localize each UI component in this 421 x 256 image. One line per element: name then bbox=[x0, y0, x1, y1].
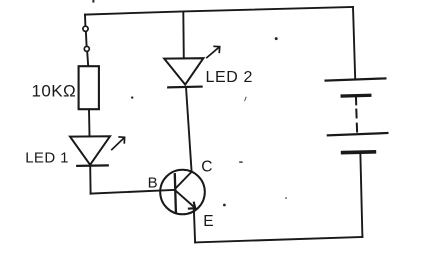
wire top rail to battery positive bbox=[353, 7, 355, 79]
speck dash right of transistor bbox=[239, 161, 242, 162]
svg-text:B: B bbox=[148, 175, 158, 192]
wire left vertical from top rail to switch contact bbox=[84, 15, 86, 27]
transistor emitter diagonal with arrow bbox=[176, 191, 195, 208]
wire top rail from left branch to battery bbox=[85, 7, 353, 15]
svg-text:LED 2: LED 2 bbox=[206, 69, 253, 86]
battery cell 1 negative plate (short thick) bbox=[342, 94, 370, 98]
wire resistor to LED 1 anode bbox=[88, 109, 91, 136]
transistor emitter arrowhead bbox=[189, 203, 195, 209]
speck comma below LED 2 label bbox=[244, 97, 246, 102]
battery dashed continuation (omitted cells) bbox=[356, 97, 357, 131]
wire bottom rail emitter to battery negative bbox=[195, 237, 362, 242]
speck dot left of LED 2 bbox=[131, 96, 133, 98]
wire top rail to LED 2 anode bbox=[182, 11, 185, 58]
wire switch contact to resistor bbox=[87, 52, 88, 67]
wire between switch contacts bbox=[85, 32, 88, 47]
svg-text:10KΩ: 10KΩ bbox=[32, 81, 77, 100]
speck faint dot bottom middle bbox=[285, 197, 287, 199]
svg-text:C: C bbox=[201, 158, 212, 175]
wire corner to transistor base bbox=[91, 190, 176, 194]
resistor 10KΩ body bbox=[79, 66, 99, 109]
speck dot below transistor E bbox=[223, 204, 226, 207]
transistor base bar bbox=[175, 174, 176, 212]
transistor collector diagonal bbox=[175, 172, 191, 189]
battery cell 2 negative plate (short thick) bbox=[343, 150, 375, 154]
LED 1 cathode bar bbox=[77, 164, 108, 167]
switch contact circle (upper) bbox=[83, 26, 88, 31]
wire LED 2 cathode to transistor collector bbox=[186, 87, 192, 172]
LED 2 emission arrow bbox=[207, 46, 220, 57]
svg-text:E: E bbox=[203, 213, 213, 230]
battery cell 1 positive plate (long) bbox=[326, 78, 386, 80]
wire right vertical battery negative to bottom rail bbox=[360, 154, 362, 237]
LED 2 cathode bar bbox=[168, 85, 201, 88]
LED 1 emission arrow bbox=[112, 137, 125, 150]
battery cell 2 positive plate (long) bbox=[328, 133, 388, 135]
wire LED 1 cathode down to corner bbox=[89, 166, 91, 194]
wire transistor emitter down to bottom rail bbox=[194, 207, 195, 242]
svg-text:LED 1: LED 1 bbox=[25, 150, 69, 167]
speck above top rail bbox=[92, 0, 94, 3]
LED 1 diode triangle bbox=[70, 136, 110, 165]
speck dot upper middle bbox=[275, 37, 278, 40]
LED 2 diode triangle bbox=[164, 58, 203, 84]
switch contact circle (lower) bbox=[84, 46, 89, 51]
transistor NPN circle bbox=[160, 170, 205, 215]
